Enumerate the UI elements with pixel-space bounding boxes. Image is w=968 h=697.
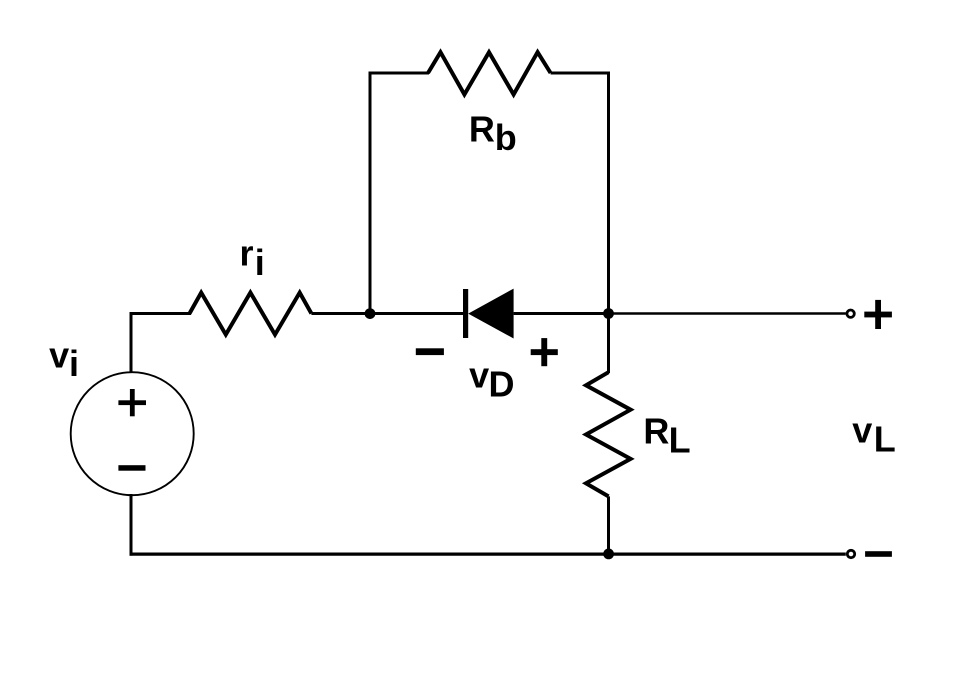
wire: bottom rail	[130, 552, 846, 555]
resistor r_i	[190, 293, 312, 335]
svg-text:i: i	[255, 242, 265, 283]
diode minus sign	[416, 348, 444, 355]
svg-text:v: v	[852, 409, 872, 450]
svg-text:i: i	[69, 343, 79, 384]
wire: main horizontal from source to r_i	[130, 312, 192, 315]
svg-text:r: r	[240, 233, 254, 274]
wire: node B down to R_L	[607, 314, 610, 374]
wire: R_b top-left horizontal	[369, 72, 430, 75]
svg-text:R: R	[469, 109, 495, 150]
output minus sign	[865, 551, 892, 557]
wire: node A up to R_b loop	[369, 72, 372, 314]
output terminal bottom (open circle)	[847, 550, 854, 557]
diode D1 triangle	[468, 289, 513, 339]
node B (junction dot right)	[603, 308, 614, 319]
source plus sign	[118, 389, 146, 416]
wire: node B to plus output terminal	[609, 312, 846, 315]
svg-text:v: v	[49, 335, 69, 376]
svg-text:v: v	[469, 354, 489, 395]
node A (junction dot left)	[365, 308, 376, 319]
resistor R_L	[586, 372, 631, 496]
wire: R_b right vertical down to node B	[607, 72, 610, 314]
wire: R_b top-right horizontal	[551, 72, 610, 75]
wire: R_L down to bottom rail	[607, 496, 610, 555]
diode plus sign	[531, 338, 558, 366]
wire: source top vertical	[130, 312, 133, 373]
source v_i circle	[71, 372, 194, 495]
source minus sign	[118, 465, 145, 471]
svg-text:R: R	[643, 411, 669, 452]
wire: source bottom vertical	[130, 494, 133, 556]
wire: r_i to diode	[311, 312, 464, 315]
output terminal top (open circle)	[847, 310, 854, 317]
diode D1 cathode bar	[463, 289, 468, 338]
node C (junction dot bottom)	[603, 549, 614, 560]
output plus sign	[864, 300, 892, 329]
svg-text:b: b	[495, 117, 517, 158]
svg-text:L: L	[874, 418, 896, 459]
resistor R_b	[428, 52, 551, 94]
svg-text:D: D	[489, 364, 515, 405]
svg-text:L: L	[669, 420, 691, 461]
wire: diode to node B	[514, 312, 609, 315]
